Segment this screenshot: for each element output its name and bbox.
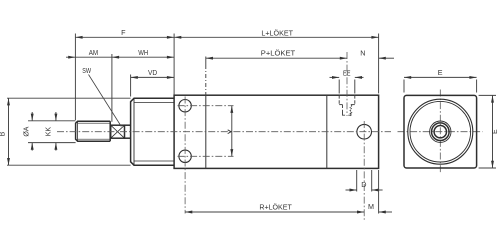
svg-text:R+LÖKET: R+LÖKET [259, 203, 292, 212]
svg-text:WH: WH [138, 48, 148, 57]
svg-text:N: N [360, 49, 365, 58]
svg-text:VD: VD [148, 68, 157, 77]
svg-text:P+LÖKET: P+LÖKET [261, 49, 296, 58]
svg-text:EE: EE [343, 68, 351, 77]
svg-text:E: E [492, 129, 499, 134]
svg-text:F: F [121, 28, 126, 37]
svg-text:L+LÖKET: L+LÖKET [261, 28, 293, 37]
svg-text:D: D [361, 180, 366, 189]
svg-text:KK: KK [45, 127, 52, 137]
svg-text:M: M [368, 202, 374, 211]
svg-text:E: E [438, 68, 443, 77]
svg-text:SW: SW [82, 66, 91, 75]
svg-text:ØA: ØA [23, 126, 30, 136]
svg-text:AM: AM [89, 48, 98, 57]
svg-text:B: B [0, 131, 7, 136]
